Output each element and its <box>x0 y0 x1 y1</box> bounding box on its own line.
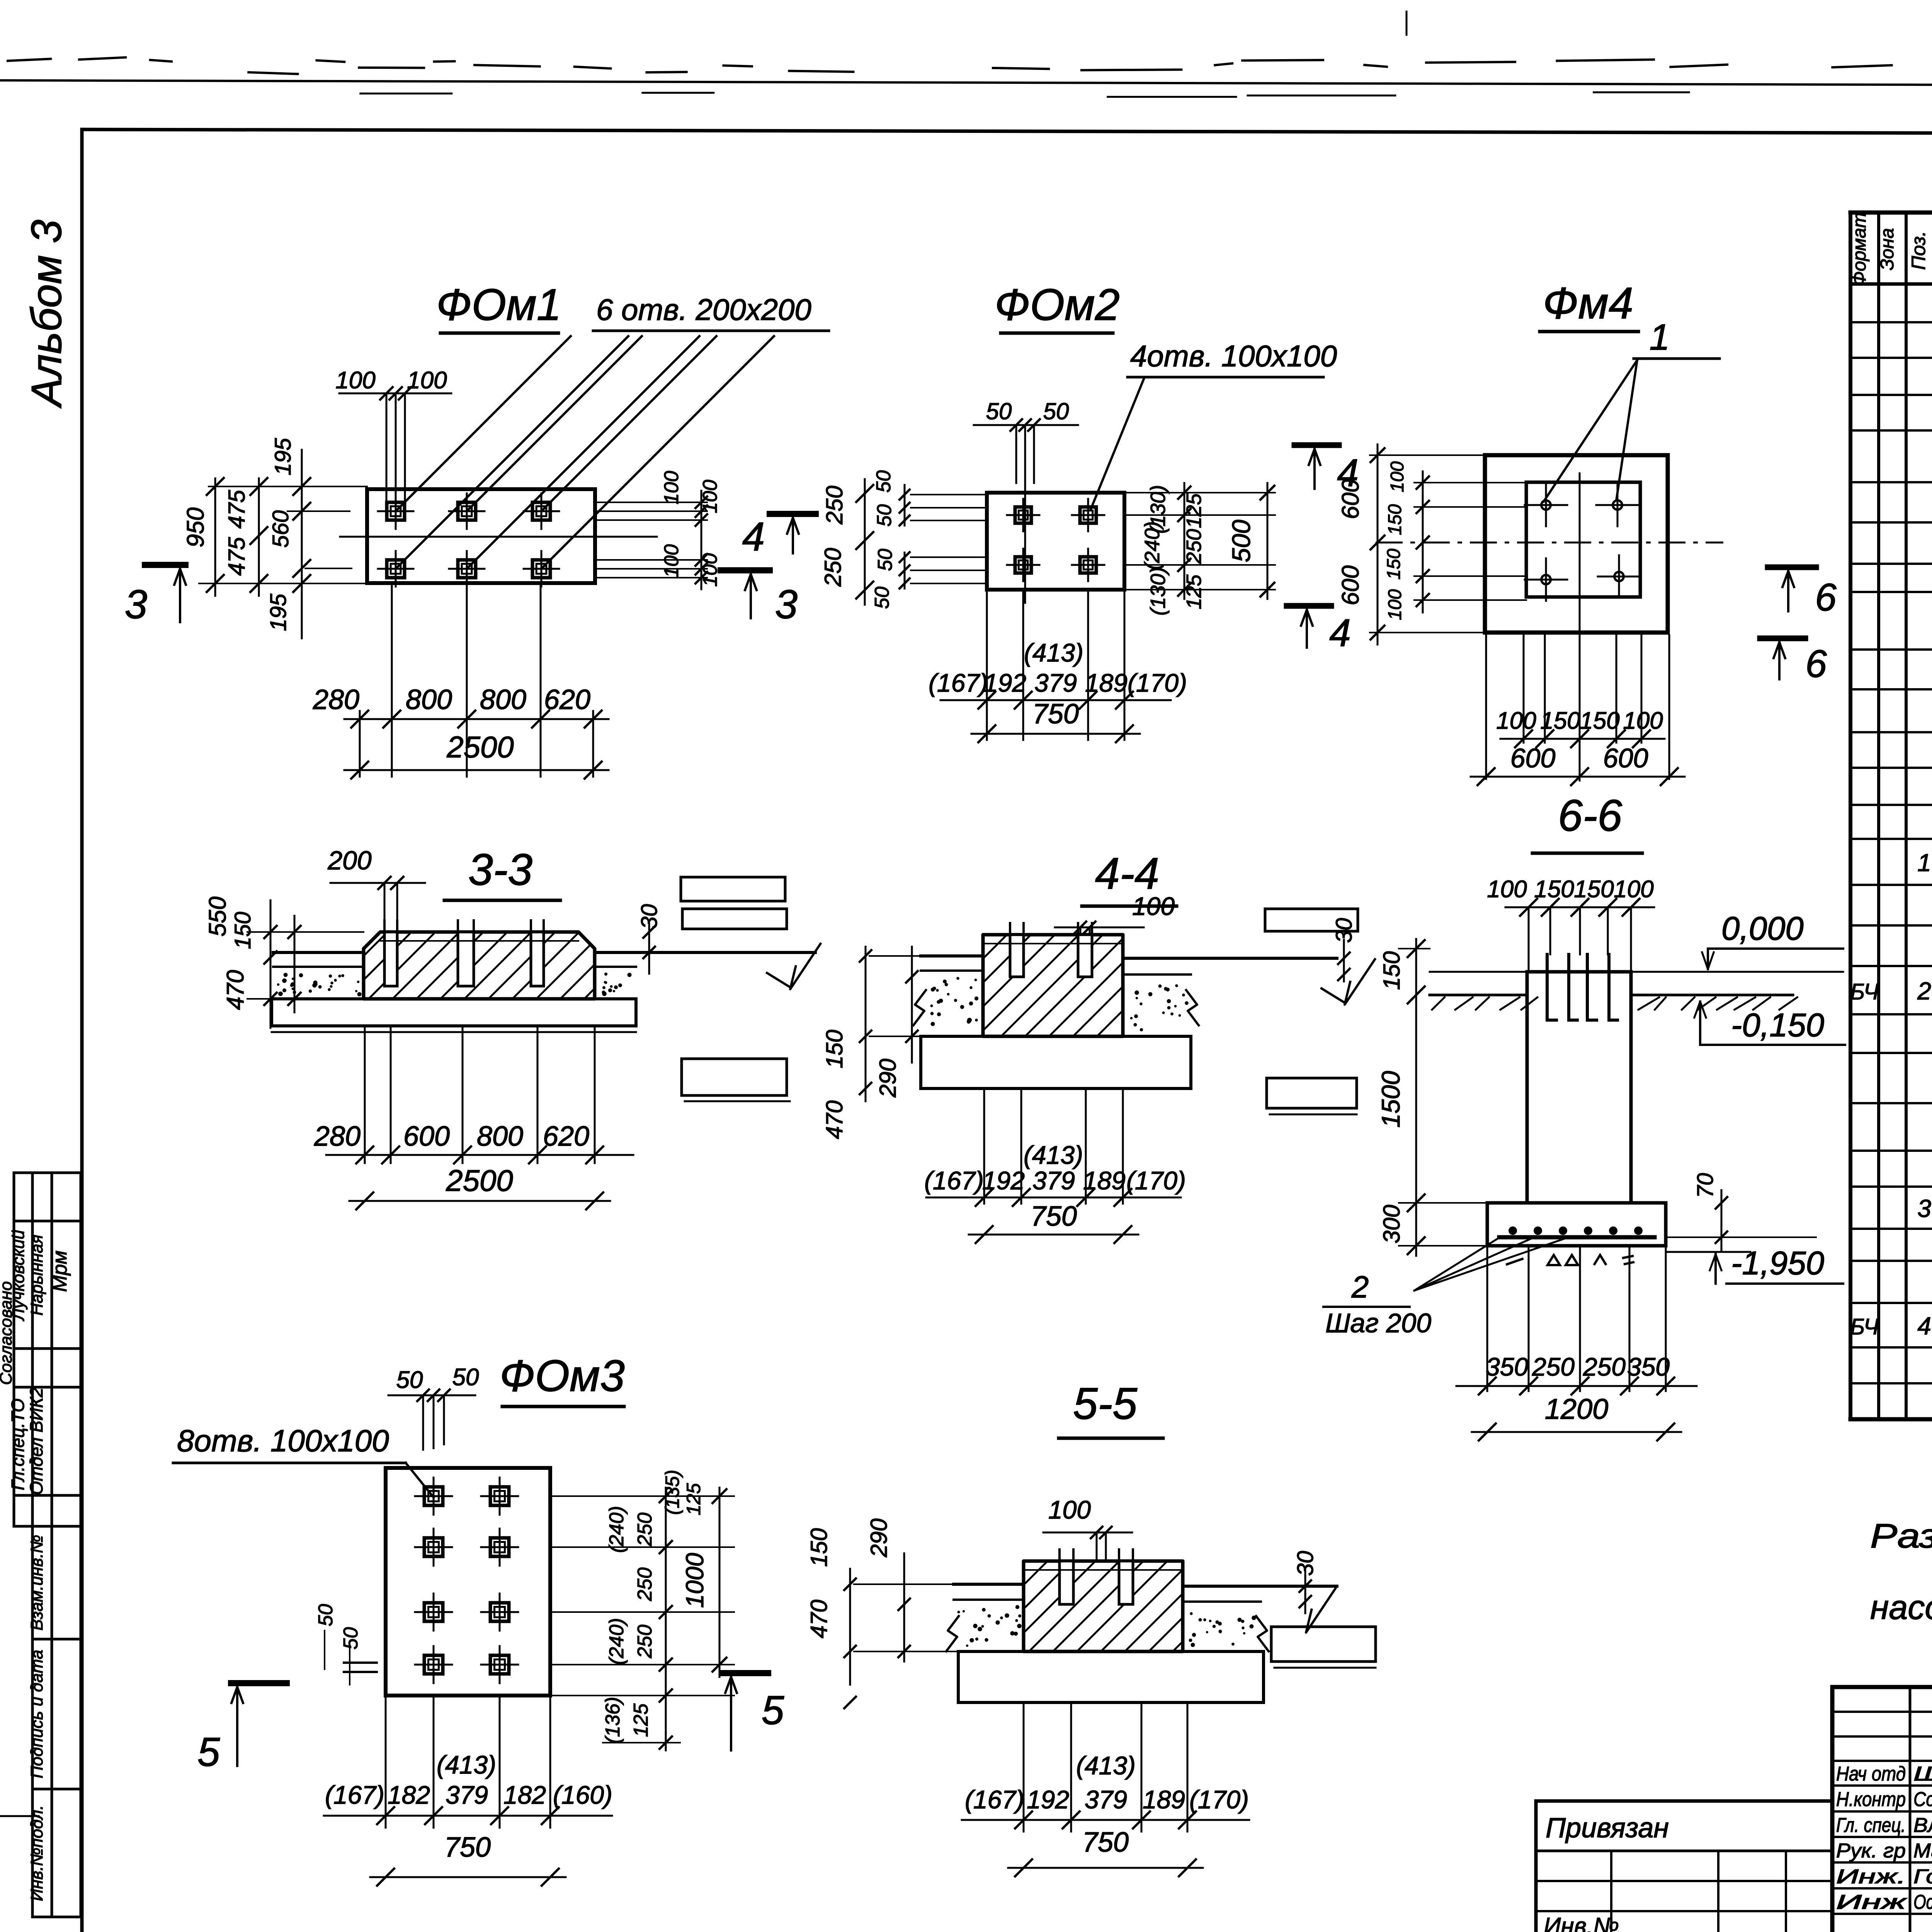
svg-text:100: 100 <box>1132 892 1175 920</box>
svg-text:Гл. спец.: Гл. спец. <box>1836 1814 1906 1837</box>
svg-text:ФОм1: ФОм1 <box>436 280 561 330</box>
svg-text:4: 4 <box>1329 611 1351 655</box>
svg-text:БЧ: БЧ <box>1850 1315 1879 1340</box>
svg-text:250: 250 <box>634 1513 656 1547</box>
svg-text:192: 192 <box>982 1166 1025 1195</box>
svg-text:(135): (135) <box>662 1470 683 1515</box>
svg-text:(413): (413) <box>1076 1751 1136 1780</box>
svg-text:600: 600 <box>1510 743 1556 773</box>
svg-text:620: 620 <box>544 684 590 715</box>
svg-text:5: 5 <box>762 1688 784 1733</box>
svg-text:195: 195 <box>266 594 291 631</box>
svg-text:Рук. гр: Рук. гр <box>1836 1840 1906 1862</box>
svg-text:0,000: 0,000 <box>1721 910 1804 947</box>
svg-text:150: 150 <box>1574 876 1614 903</box>
svg-text:620: 620 <box>543 1121 589 1152</box>
svg-text:6-6: 6-6 <box>1558 791 1622 840</box>
svg-text:189: 189 <box>1085 668 1128 697</box>
svg-text:50: 50 <box>340 1627 362 1650</box>
svg-text:Остапченко: Остапченко <box>1913 1891 1932 1913</box>
svg-text:2: 2 <box>1351 1270 1369 1304</box>
svg-text:150: 150 <box>1540 707 1580 734</box>
svg-text:2500: 2500 <box>446 730 514 764</box>
svg-text:50: 50 <box>986 398 1012 424</box>
svg-text:-0,150: -0,150 <box>1731 1007 1824 1044</box>
svg-text:100: 100 <box>660 471 683 505</box>
svg-text:800: 800 <box>480 684 526 715</box>
svg-text:250: 250 <box>821 486 847 525</box>
svg-text:100: 100 <box>1496 707 1536 734</box>
svg-text:3: 3 <box>775 582 798 627</box>
svg-text:(170): (170) <box>1126 1166 1186 1195</box>
svg-text:1200: 1200 <box>1545 1393 1609 1425</box>
svg-text:100: 100 <box>1385 589 1405 620</box>
svg-text:Альбом 3: Альбом 3 <box>23 219 70 408</box>
svg-text:150: 150 <box>821 1030 847 1068</box>
svg-text:600: 600 <box>403 1121 450 1152</box>
svg-text:100: 100 <box>1048 1495 1091 1524</box>
svg-text:(170): (170) <box>1189 1785 1249 1814</box>
svg-text:50: 50 <box>315 1604 337 1626</box>
svg-text:379: 379 <box>1085 1785 1127 1814</box>
svg-text:100: 100 <box>1623 707 1663 734</box>
svg-text:Шейко: Шейко <box>1913 1763 1932 1785</box>
svg-text:50: 50 <box>874 549 896 571</box>
svg-text:(240): (240) <box>605 1506 628 1553</box>
svg-text:100: 100 <box>1387 461 1408 492</box>
svg-text:379: 379 <box>1032 1166 1075 1195</box>
svg-text:6: 6 <box>1815 576 1837 619</box>
svg-text:150: 150 <box>1580 707 1619 734</box>
svg-text:50: 50 <box>452 1364 479 1391</box>
svg-text:Инж: Инж <box>1836 1891 1907 1913</box>
svg-text:3-3: 3-3 <box>468 845 532 895</box>
svg-text:600: 600 <box>1337 565 1364 605</box>
svg-text:1: 1 <box>1650 317 1670 358</box>
svg-text:(170): (170) <box>1128 668 1187 697</box>
svg-text:50: 50 <box>872 470 895 493</box>
svg-text:Привязан: Привязан <box>1546 1813 1669 1844</box>
svg-text:1000: 1000 <box>681 1553 709 1608</box>
svg-text:470: 470 <box>222 970 249 1010</box>
svg-text:290: 290 <box>875 1059 901 1098</box>
svg-text:ФОм3: ФОм3 <box>500 1351 625 1401</box>
svg-text:Нач отд: Нач отд <box>1836 1763 1906 1785</box>
svg-text:250: 250 <box>634 1568 656 1602</box>
svg-text:250: 250 <box>634 1625 656 1659</box>
svg-text:(167): (167) <box>325 1781 384 1809</box>
svg-text:1500: 1500 <box>1376 1071 1405 1128</box>
svg-text:(413): (413) <box>1024 638 1083 667</box>
svg-text:150: 150 <box>1379 951 1405 990</box>
svg-text:300: 300 <box>1379 1205 1405 1243</box>
svg-text:379: 379 <box>446 1781 488 1809</box>
svg-text:100: 100 <box>335 367 375 394</box>
svg-text:50: 50 <box>396 1367 423 1393</box>
svg-text:182: 182 <box>388 1781 430 1809</box>
svg-text:6 отв. 200х200: 6 отв. 200х200 <box>596 293 811 327</box>
svg-text:Голосов: Голосов <box>1913 1866 1932 1888</box>
svg-text:Гл.спец.ТО: Гл.спец.ТО <box>8 1398 28 1490</box>
svg-text:192: 192 <box>1027 1785 1069 1814</box>
svg-text:600: 600 <box>1337 479 1364 519</box>
svg-text:Мрм: Мрм <box>49 1250 71 1292</box>
svg-text:Инв.№: Инв.№ <box>1544 1913 1619 1932</box>
svg-text:470: 470 <box>806 1600 832 1638</box>
svg-text:4-4: 4-4 <box>1095 849 1159 898</box>
svg-text:3: 3 <box>125 582 147 627</box>
svg-text:189: 189 <box>1143 1785 1185 1814</box>
svg-text:100: 100 <box>699 480 721 514</box>
svg-text:150: 150 <box>1384 549 1404 580</box>
svg-text:750: 750 <box>444 1832 491 1863</box>
svg-text:150: 150 <box>806 1528 832 1567</box>
svg-text:290: 290 <box>866 1519 892 1558</box>
svg-text:БЧ: БЧ <box>1850 980 1879 1005</box>
svg-text:125: 125 <box>683 1483 704 1515</box>
svg-text:(240): (240) <box>605 1618 628 1665</box>
svg-text:Размеры в скобках даны под: Размеры в скобках даны под установку <box>1870 1517 1932 1555</box>
svg-text:150: 150 <box>1534 876 1574 903</box>
svg-text:350: 350 <box>1627 1352 1670 1381</box>
svg-text:4отв. 100х100: 4отв. 100х100 <box>1130 339 1337 373</box>
svg-text:Формат: Формат <box>1849 213 1870 286</box>
svg-text:2: 2 <box>1917 977 1931 1005</box>
svg-text:200: 200 <box>327 846 372 875</box>
svg-text:50: 50 <box>1043 398 1069 424</box>
svg-text:475: 475 <box>224 490 250 529</box>
svg-text:Зона: Зона <box>1877 228 1898 270</box>
svg-text:5-5: 5-5 <box>1073 1379 1138 1429</box>
svg-text:4: 4 <box>742 514 765 560</box>
svg-text:182: 182 <box>503 1781 546 1809</box>
svg-text:250: 250 <box>1182 529 1206 564</box>
svg-text:-1,950: -1,950 <box>1731 1245 1824 1282</box>
svg-text:379: 379 <box>1034 668 1077 697</box>
svg-text:250: 250 <box>820 548 846 587</box>
svg-text:280: 280 <box>314 1121 361 1152</box>
svg-text:(167): (167) <box>924 1166 984 1195</box>
svg-text:ФОм2: ФОм2 <box>995 280 1120 330</box>
svg-text:Поз.: Поз. <box>1908 231 1929 270</box>
svg-text:150: 150 <box>230 912 255 949</box>
svg-text:560: 560 <box>268 510 293 548</box>
svg-text:(240): (240) <box>1141 521 1164 570</box>
svg-text:Нарынная: Нарынная <box>27 1235 46 1316</box>
svg-text:(413): (413) <box>437 1750 496 1779</box>
svg-text:(167): (167) <box>929 668 988 697</box>
svg-text:Соколоская: Соколоская <box>1913 1788 1932 1811</box>
svg-text:Н.контр: Н.контр <box>1836 1788 1906 1811</box>
svg-text:350: 350 <box>1486 1352 1528 1381</box>
svg-text:800: 800 <box>477 1121 523 1152</box>
svg-text:70: 70 <box>1693 1173 1718 1198</box>
svg-text:8отв. 100х100: 8отв. 100х100 <box>177 1423 389 1458</box>
svg-text:192: 192 <box>984 668 1026 697</box>
svg-text:100: 100 <box>1614 876 1653 903</box>
svg-text:750: 750 <box>1031 1201 1077 1232</box>
svg-text:750: 750 <box>1082 1827 1129 1858</box>
svg-text:4: 4 <box>1917 1312 1931 1340</box>
svg-text:50: 50 <box>873 504 896 527</box>
svg-text:Подпись и дата: Подпись и дата <box>27 1650 46 1779</box>
svg-text:600: 600 <box>1603 743 1648 773</box>
svg-text:Шаг 200: Шаг 200 <box>1325 1308 1431 1338</box>
svg-text:500: 500 <box>1227 520 1255 562</box>
svg-text:(160): (160) <box>553 1781 612 1809</box>
svg-text:Мазалова: Мазалова <box>1913 1840 1932 1862</box>
svg-text:750: 750 <box>1032 699 1079 730</box>
svg-text:насосов: насосов <box>1870 1588 1932 1626</box>
svg-text:1: 1 <box>1917 849 1931 877</box>
svg-text:5: 5 <box>197 1730 220 1775</box>
svg-text:Отдел ВИК2: Отдел ВИК2 <box>26 1388 46 1495</box>
svg-text:250: 250 <box>1532 1352 1575 1381</box>
svg-text:125: 125 <box>630 1703 652 1737</box>
svg-text:2500: 2500 <box>446 1163 513 1197</box>
svg-text:Согласовано: Согласовано <box>0 1281 15 1385</box>
svg-text:50: 50 <box>871 587 893 609</box>
svg-text:800: 800 <box>406 684 452 715</box>
svg-text:100: 100 <box>407 367 447 394</box>
svg-text:125: 125 <box>1182 493 1206 528</box>
svg-text:Власенко: Власенко <box>1913 1814 1932 1837</box>
svg-text:100: 100 <box>660 544 683 578</box>
svg-text:150: 150 <box>1385 504 1405 535</box>
svg-text:Взам.инв.№: Взам.инв.№ <box>27 1535 46 1631</box>
svg-text:125: 125 <box>1182 574 1206 609</box>
svg-text:280: 280 <box>313 684 359 715</box>
svg-text:470: 470 <box>821 1100 847 1139</box>
svg-text:Фм4: Фм4 <box>1543 279 1633 328</box>
svg-text:Инв.№подл.: Инв.№подл. <box>27 1805 46 1901</box>
svg-text:3: 3 <box>1917 1195 1931 1223</box>
svg-text:Инж.: Инж. <box>1836 1866 1906 1888</box>
svg-text:(136): (136) <box>602 1697 624 1743</box>
svg-text:(413): (413) <box>1024 1141 1083 1169</box>
svg-text:189: 189 <box>1083 1166 1126 1195</box>
svg-text:(167): (167) <box>965 1785 1024 1814</box>
svg-text:550: 550 <box>204 896 231 936</box>
svg-text:(130): (130) <box>1146 567 1170 616</box>
svg-text:195: 195 <box>270 438 296 476</box>
svg-text:950: 950 <box>182 507 209 547</box>
svg-text:6: 6 <box>1805 642 1827 685</box>
svg-text:475: 475 <box>224 537 250 576</box>
svg-text:100: 100 <box>1487 876 1527 903</box>
